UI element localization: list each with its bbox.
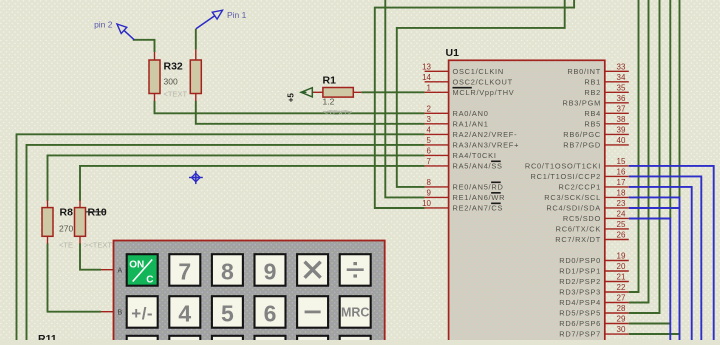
- origin marker: [189, 171, 203, 184]
- svg-text:21: 21: [617, 273, 626, 282]
- svg-text:RA0/AN0: RA0/AN0: [453, 109, 489, 118]
- svg-text:1: 1: [427, 84, 432, 93]
- pointer pin 2: [94, 20, 134, 40]
- svg-text:RD7/PSP7: RD7/PSP7: [559, 330, 601, 339]
- wire green column to RC3 node: [679, 0, 681, 197]
- svg-text:39: 39: [617, 126, 626, 135]
- svg-text:MCLR/Vpp/THV: MCLR/Vpp/THV: [453, 88, 515, 97]
- svg-text:16: 16: [617, 168, 626, 177]
- svg-text:3: 3: [427, 115, 432, 124]
- button 6: [255, 296, 286, 328]
- button plus/minus: [127, 296, 158, 328]
- resistor R8: [42, 200, 73, 249]
- wire pin2 stem: [133, 40, 155, 52]
- wire RA0 to R32: [155, 101, 425, 114]
- svg-text:15: 15: [617, 157, 626, 166]
- pin 18 RC3/SCK/SCL: [544, 189, 629, 202]
- svg-text:RC0/T1OSO/T1CKI: RC0/T1OSO/T1CKI: [525, 162, 601, 171]
- svg-text:R32: R32: [164, 61, 183, 73]
- pin 17 RC2/CCP1: [558, 178, 628, 191]
- svg-text:20: 20: [617, 262, 626, 271]
- svg-text:RE0/AN5/RD: RE0/AN5/RD: [453, 183, 504, 192]
- button 4: [169, 296, 200, 328]
- svg-text:8: 8: [427, 178, 432, 187]
- svg-text:+5: +5: [287, 93, 296, 103]
- pointer Pin 1: [196, 10, 247, 29]
- resistor R1: [312, 75, 361, 118]
- wire RD7 to column: [629, 333, 680, 335]
- wire RD4 column: [629, 0, 649, 303]
- pin 38 RB5: [584, 115, 628, 128]
- wire RA1 to R33: [196, 101, 425, 124]
- svg-text:RA5/AN4/SS: RA5/AN4/SS: [453, 162, 503, 171]
- button divide: [340, 254, 371, 286]
- svg-text:17: 17: [617, 178, 626, 187]
- pin 7 RA5/AN4/SS: [425, 157, 503, 170]
- svg-text:U1: U1: [446, 47, 460, 59]
- pin 10 RE2/AN7/CS: [422, 199, 503, 212]
- svg-text:6: 6: [427, 147, 432, 156]
- svg-text:RC7/RX/DT: RC7/RX/DT: [555, 235, 601, 244]
- pin 34 RB1: [584, 73, 628, 86]
- svg-text:8: 8: [221, 259, 234, 285]
- pin 3 RA1/AN1: [425, 115, 489, 128]
- button row C tops: [127, 336, 371, 345]
- svg-text:RA2/AN2/VREF-: RA2/AN2/VREF-: [453, 130, 518, 139]
- wire RD3 column: [629, 0, 639, 292]
- svg-text:RB0/INT: RB0/INT: [567, 67, 601, 76]
- svg-text:18: 18: [617, 189, 626, 198]
- svg-text:RC5/SDO: RC5/SDO: [563, 214, 601, 223]
- svg-text:RD0/PSP0: RD0/PSP0: [559, 256, 601, 265]
- pin 19 RD0/PSP0: [559, 252, 629, 265]
- pin 8 RE0/AN5/RD: [425, 178, 504, 191]
- svg-text:RB7/PGD: RB7/PGD: [563, 141, 601, 150]
- svg-text:RA1/AN1: RA1/AN1: [453, 119, 489, 128]
- resistor R33: [190, 49, 201, 101]
- pin 15 RC0/T1OSO/T1CKI: [525, 157, 629, 170]
- svg-text:270: 270: [59, 224, 73, 234]
- button 8: [212, 254, 243, 286]
- wire RC1 blue: [629, 176, 702, 340]
- svg-text:34: 34: [617, 73, 626, 82]
- wire RA4 to R8: [48, 155, 425, 200]
- pin 16 RC1/T1OSI/CCP2: [531, 168, 629, 181]
- svg-text:C: C: [146, 275, 153, 286]
- pin 30 RD7/PSP7: [559, 325, 629, 339]
- svg-text:RD3/PSP3: RD3/PSP3: [559, 288, 601, 297]
- keypad KP1 body: [114, 241, 385, 345]
- wire R10 to keypad row A: [80, 243, 101, 269]
- pin 36 RB3/PGM: [562, 94, 628, 107]
- pin 27 RD4/PSP4: [559, 294, 629, 307]
- svg-text:RD6/PSP6: RD6/PSP6: [559, 319, 601, 328]
- pin 2 RA0/AN0: [425, 105, 489, 118]
- wire RA5 to R10: [80, 166, 425, 201]
- wire RA2 column: [17, 134, 425, 340]
- svg-text:36: 36: [617, 94, 626, 103]
- pin 25 RC6/TX/CK: [556, 220, 629, 233]
- svg-text:RB4: RB4: [584, 109, 601, 118]
- svg-text:RB1: RB1: [584, 77, 601, 86]
- wire net RE2 top: [375, 0, 574, 208]
- svg-text:OSC2/CLKOUT: OSC2/CLKOUT: [453, 77, 513, 86]
- op-amp U1 body: [446, 47, 605, 345]
- svg-text:RD2/PSP2: RD2/PSP2: [559, 277, 601, 286]
- button 9: [255, 254, 286, 286]
- svg-text:26: 26: [617, 231, 626, 240]
- wire Pin1 stem: [195, 29, 197, 50]
- button minus: [297, 296, 328, 328]
- svg-text:R8: R8: [60, 207, 74, 219]
- keypad pin A: [101, 267, 123, 274]
- wire RD6 to column: [629, 323, 671, 325]
- svg-text:33: 33: [617, 63, 626, 72]
- button MRC: [340, 296, 371, 328]
- svg-text:RB6/PGC: RB6/PGC: [563, 130, 601, 139]
- wire net RE0 top: [397, 0, 565, 187]
- svg-text:14: 14: [422, 73, 431, 82]
- svg-text:5: 5: [427, 136, 432, 145]
- svg-text:RB3/PGM: RB3/PGM: [562, 98, 601, 107]
- svg-text:RC1/T1OSI/CCP2: RC1/T1OSI/CCP2: [531, 172, 601, 181]
- svg-text:7: 7: [427, 157, 432, 166]
- wire RC5 blue: [629, 219, 671, 341]
- svg-text:RB2: RB2: [584, 88, 601, 97]
- svg-text:4: 4: [178, 301, 191, 327]
- keypad pin B: [101, 309, 123, 316]
- svg-text:OSC1/CLKIN: OSC1/CLKIN: [453, 67, 504, 76]
- svg-text:22: 22: [617, 283, 626, 292]
- wire green column to RC5 node: [669, 0, 671, 219]
- pin 1 MCLR/Vpp/THV: [425, 84, 515, 97]
- svg-text:RA3/AN3/VREF+: RA3/AN3/VREF+: [453, 141, 520, 150]
- pin 20 RD1/PSP1: [559, 262, 629, 275]
- pin 6 RA4/T0CKI: [425, 147, 497, 160]
- pin 13 OSC1/CLKIN: [422, 63, 504, 76]
- pin 40 RB7/PGD: [563, 136, 629, 149]
- button 7: [169, 254, 200, 286]
- svg-text:RE1/AN6/WR: RE1/AN6/WR: [453, 193, 506, 202]
- svg-text:10: 10: [422, 199, 431, 208]
- svg-text:13: 13: [422, 63, 431, 72]
- svg-text:40: 40: [617, 136, 626, 145]
- pin 23 RC4/SDI/SDA: [546, 199, 628, 212]
- svg-text:2: 2: [427, 105, 432, 114]
- svg-text:Pin 1: Pin 1: [227, 10, 247, 20]
- pin 24 RC5/SDO: [563, 210, 629, 223]
- pin 35 RB2: [584, 84, 628, 97]
- svg-text:RC6/TX/CK: RC6/TX/CK: [556, 225, 601, 234]
- svg-text:A: A: [118, 267, 123, 274]
- svg-text:6: 6: [264, 301, 277, 327]
- power +5: [287, 88, 313, 103]
- svg-text:29: 29: [617, 315, 626, 324]
- svg-text:9: 9: [264, 259, 277, 285]
- button 5: [212, 296, 243, 328]
- svg-text:RB5: RB5: [584, 119, 601, 128]
- svg-text:37: 37: [617, 105, 626, 114]
- pin 5 RA3/AN3/VREF+: [425, 136, 520, 149]
- wire R8 to keypad row B: [48, 243, 102, 311]
- svg-text:7: 7: [178, 259, 191, 285]
- pin 21 RD2/PSP2: [559, 273, 629, 286]
- pin 26 RC7/RX/DT: [555, 231, 629, 244]
- svg-text:+/-: +/-: [131, 304, 153, 323]
- svg-text:RC4/SDI/SDA: RC4/SDI/SDA: [546, 204, 601, 213]
- svg-text:<TEXT: <TEXT: [164, 90, 188, 99]
- pin 37 RB4: [584, 105, 628, 118]
- svg-text:1.2: 1.2: [323, 97, 335, 107]
- svg-text:RC2/CCP1: RC2/CCP1: [558, 183, 601, 192]
- svg-text:28: 28: [617, 304, 626, 313]
- svg-text:5: 5: [221, 301, 234, 327]
- wire RC3 blue: [629, 197, 680, 340]
- svg-text:<TE: <TE: [59, 241, 73, 250]
- svg-text:RC3/SCK/SCL: RC3/SCK/SCL: [544, 193, 601, 202]
- svg-text:4: 4: [427, 126, 432, 135]
- svg-text:30: 30: [617, 325, 626, 334]
- svg-text:B: B: [118, 309, 123, 316]
- svg-text:pin 2: pin 2: [94, 20, 113, 30]
- svg-text:RA4/T0CKI: RA4/T0CKI: [453, 151, 497, 160]
- svg-text:38: 38: [617, 115, 626, 124]
- wire MCLR from R1: [361, 91, 424, 93]
- svg-text:RE2/AN7/CS: RE2/AN7/CS: [453, 204, 504, 213]
- resistor R32: [149, 52, 187, 101]
- wire RC0 blue: [629, 166, 714, 340]
- pin 33 RB0/INT: [567, 63, 628, 76]
- svg-text:25: 25: [617, 220, 626, 229]
- svg-text:<TEXT>: <TEXT>: [324, 108, 353, 117]
- pin 14 OSC2/CLKOUT: [422, 73, 513, 86]
- resistor R10: [75, 200, 117, 249]
- pin 9 RE1/AN6/WR: [425, 189, 506, 202]
- svg-text:ON: ON: [129, 260, 144, 271]
- pin 28 RD5/PSP5: [559, 304, 629, 317]
- svg-text:35: 35: [617, 84, 626, 93]
- svg-text:RD4/PSP4: RD4/PSP4: [559, 298, 601, 307]
- pin 39 RB6/PGC: [563, 126, 629, 139]
- svg-text:R11: R11: [38, 333, 57, 340]
- button ON/C: [127, 254, 158, 286]
- pin 29 RD6/PSP6: [559, 315, 629, 328]
- wire RA3 column: [27, 145, 425, 340]
- button multiply: [297, 254, 328, 286]
- svg-text:300: 300: [164, 77, 178, 87]
- svg-text:23: 23: [617, 199, 626, 208]
- wire RC4 blue: [629, 207, 680, 209]
- wire RD5 column: [629, 0, 660, 313]
- svg-text:19: 19: [617, 252, 626, 261]
- pin 22 RD3/PSP3: [559, 283, 629, 296]
- svg-text:R1: R1: [323, 75, 337, 87]
- svg-text:R10: R10: [88, 207, 107, 219]
- svg-text:27: 27: [617, 294, 626, 303]
- wire net RE1: [385, 0, 424, 197]
- svg-text:RD1/PSP1: RD1/PSP1: [559, 267, 601, 276]
- svg-text:RD5/PSP5: RD5/PSP5: [559, 309, 601, 318]
- svg-text:MRC: MRC: [341, 306, 369, 320]
- svg-text:><TEXT>: ><TEXT>: [84, 241, 117, 250]
- wire RC2 blue: [629, 187, 692, 340]
- svg-text:24: 24: [617, 210, 626, 219]
- pin 4 RA2/AN2/VREF-: [425, 126, 518, 139]
- svg-text:9: 9: [427, 189, 432, 198]
